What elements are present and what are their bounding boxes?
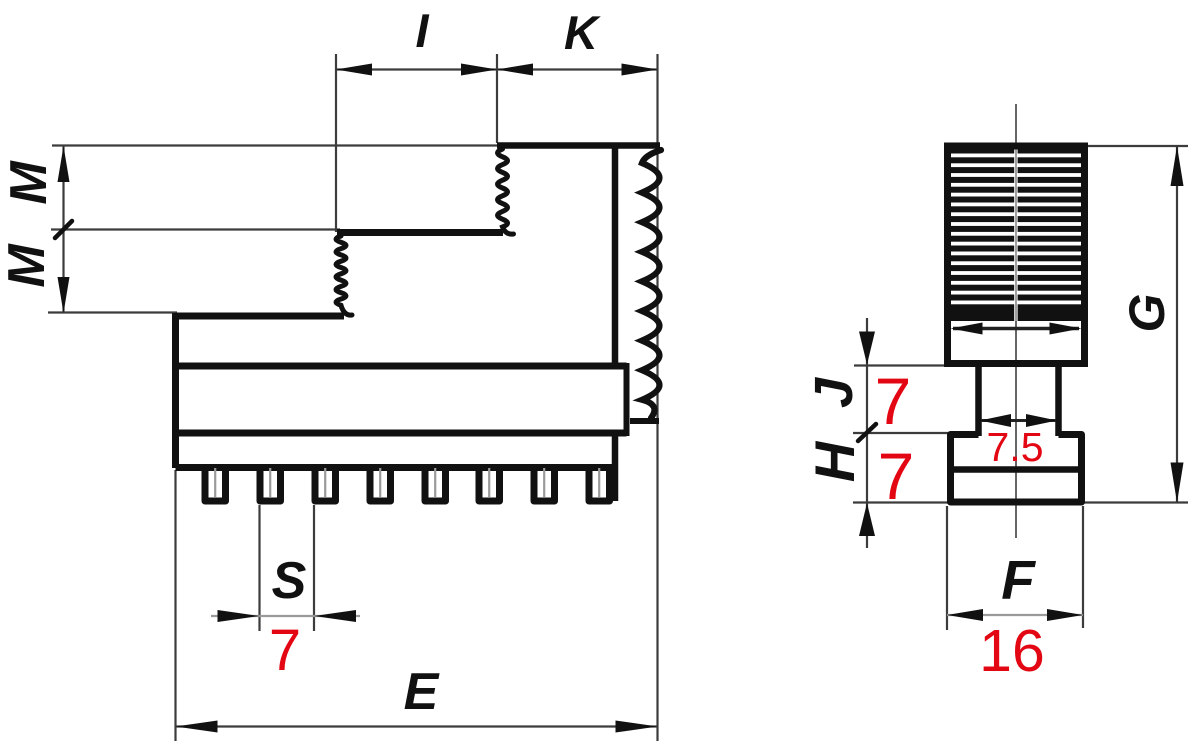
base block outline xyxy=(951,435,1082,503)
slash tick M middle xyxy=(55,221,72,238)
guide band top xyxy=(172,363,627,370)
svg-text:7.5: 7.5 xyxy=(987,424,1044,470)
arrow I left xyxy=(336,64,372,76)
extension line y=502.5 left (H bottom) xyxy=(853,501,948,503)
extension line y=229.5 (M mid) xyxy=(51,228,340,230)
left edge xyxy=(172,313,179,468)
tooth groove 7 xyxy=(534,466,555,501)
groove 8 centerline xyxy=(598,468,600,497)
right view: jaw cross-section xyxy=(803,104,1188,684)
svg-text:M: M xyxy=(0,243,56,288)
tooth groove 6 xyxy=(479,466,500,501)
groove 4 centerline xyxy=(379,468,381,497)
extension line y=146 (G top) xyxy=(1088,145,1188,147)
extension line y=433 (J/H) xyxy=(853,432,948,434)
neck right edge xyxy=(1055,367,1062,436)
dimension line J/H x=867 xyxy=(866,318,868,548)
svg-text:E: E xyxy=(404,663,440,721)
svg-text:7: 7 xyxy=(875,364,912,438)
arrow K left xyxy=(497,64,533,76)
arrow G top (up) xyxy=(1171,146,1184,186)
arrow S right (pointing left) xyxy=(314,610,356,622)
arrow F right xyxy=(1047,609,1083,621)
extension line x=259.5 (S left) xyxy=(258,505,260,631)
extension line x=657.5 (K right / E right) xyxy=(656,54,658,741)
arrow E right xyxy=(616,721,658,733)
svg-text:M: M xyxy=(0,160,58,205)
arrow F left xyxy=(947,609,983,621)
arrow H bottom (up) xyxy=(859,503,875,536)
arrow S left (pointing right) xyxy=(218,610,260,622)
svg-text:7: 7 xyxy=(878,439,915,513)
groove 6 centerline xyxy=(488,468,490,497)
dimension line E y=726.5 xyxy=(176,725,658,727)
step tread 2 xyxy=(176,313,345,320)
right inner edge upper xyxy=(612,143,619,366)
svg-text:J: J xyxy=(804,377,864,408)
svg-text:S: S xyxy=(272,552,307,610)
guide band bottom xyxy=(172,430,627,437)
arrow J top (down) xyxy=(859,332,875,365)
tooth groove 5 xyxy=(425,466,446,501)
arrow E left xyxy=(176,721,218,733)
neck left edge xyxy=(975,367,982,436)
left view: jaw side profile xyxy=(0,4,661,741)
extension line y=145.5 (M top) xyxy=(52,144,497,146)
top face xyxy=(497,142,660,149)
dimension line I/K y=69.5 xyxy=(336,68,658,70)
step tread 1 xyxy=(337,229,503,236)
slash tick J/H xyxy=(858,424,876,441)
extension line x=175.5 (E left) xyxy=(174,470,176,741)
head serration hatch xyxy=(951,150,1081,322)
base inner line xyxy=(951,466,1082,473)
svg-text:I: I xyxy=(415,4,429,57)
svg-text:7: 7 xyxy=(269,618,301,683)
centerline xyxy=(1015,104,1017,538)
dimension line S y=616 xyxy=(211,615,360,617)
serrated step riser 1 (wavy) xyxy=(498,149,514,234)
arrow I right xyxy=(461,64,497,76)
serrated head block outline xyxy=(948,146,1085,364)
svg-text:H: H xyxy=(803,440,866,482)
extension line y=312.5 (M bottom) xyxy=(48,311,177,313)
extension line y=365.5 (J top) xyxy=(854,364,947,366)
serrated clamping face (zigzag right edge) xyxy=(642,150,661,418)
bottom face xyxy=(176,464,618,471)
svg-text:K: K xyxy=(564,6,601,59)
extension line x=314 (S right) xyxy=(313,505,315,631)
tooth groove 3 xyxy=(315,466,336,501)
tooth groove 2 xyxy=(260,466,281,501)
serrated clamping face bottom xyxy=(630,418,659,424)
groove 2 centerline xyxy=(269,468,271,497)
arrow K right xyxy=(622,64,658,76)
dimension line M x=63.5 xyxy=(62,146,64,313)
groove 3 centerline xyxy=(324,468,326,497)
arrow M bottom xyxy=(58,277,70,313)
dimension line F y=615 xyxy=(947,614,1083,616)
head width double arrow xyxy=(953,327,1079,330)
extension line x=336 (I left) xyxy=(335,54,337,232)
right inner edge lower xyxy=(612,433,619,501)
slot width 7.5 double arrow xyxy=(981,419,1056,422)
tooth groove 4 xyxy=(370,466,391,501)
extension line x=497 (I/K) xyxy=(496,54,498,143)
groove 7 centerline xyxy=(543,468,545,497)
dimension line G x=1177 xyxy=(1176,146,1178,503)
tooth groove 1 xyxy=(205,466,226,501)
svg-text:G: G xyxy=(1119,294,1175,333)
svg-text:F: F xyxy=(1001,549,1036,611)
extension line y=502.5 right (G bottom) xyxy=(1084,501,1188,503)
svg-text:16: 16 xyxy=(979,618,1045,684)
extension line x=947 (F left) xyxy=(946,506,948,630)
groove 5 centerline xyxy=(434,468,436,497)
extension line x=1083 (F right) xyxy=(1082,506,1084,628)
serrated step riser 2 (wavy) xyxy=(336,236,352,315)
tooth groove 8 xyxy=(589,466,610,501)
arrow G bottom (down) xyxy=(1171,463,1184,503)
arrow M top xyxy=(58,146,70,182)
guide band right edge xyxy=(624,363,630,436)
groove 1 centerline xyxy=(214,468,216,497)
